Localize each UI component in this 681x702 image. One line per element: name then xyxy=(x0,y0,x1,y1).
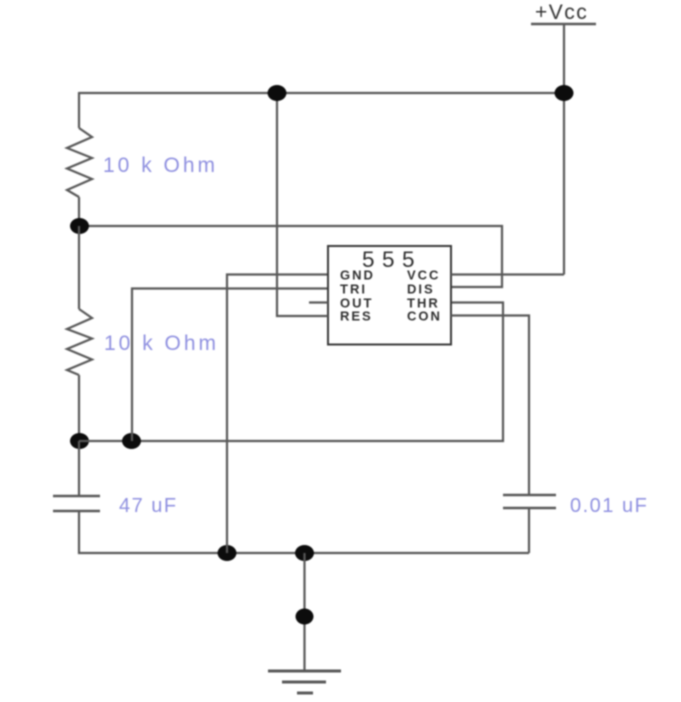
svg-text:CON: CON xyxy=(407,309,442,324)
svg-text:RES: RES xyxy=(340,309,373,324)
junction dot (304.5,553) xyxy=(295,545,314,561)
wire RES branch x=277 from top rail xyxy=(277,93,328,316)
svg-text:47 uF: 47 uF xyxy=(119,495,178,517)
junction dot (304.5,616.5) xyxy=(296,609,314,625)
wire top rail y=93 xyxy=(79,92,564,94)
wire node B horizontal y=441 to THR riser xyxy=(79,303,503,442)
resistor R1 xyxy=(67,128,92,197)
wire TRI branch x=132 xyxy=(132,289,328,442)
wire OUT stub xyxy=(309,301,328,303)
svg-text:GND: GND xyxy=(340,268,375,283)
capacitor C2 0.01 uF xyxy=(503,495,556,508)
ground xyxy=(268,671,341,693)
wire GND branch x=227 xyxy=(227,275,328,554)
svg-text:10 k Ohm: 10 k Ohm xyxy=(103,154,218,177)
svg-text:10 k Ohm: 10 k Ohm xyxy=(104,332,219,355)
junction dot (564,93) xyxy=(555,85,574,101)
junction dot (277,93) xyxy=(268,85,287,101)
power symbol +Vcc xyxy=(531,1,596,24)
svg-text:DIS: DIS xyxy=(407,282,435,297)
wire CON branch to C2 xyxy=(451,316,529,496)
svg-text:+Vcc: +Vcc xyxy=(535,1,588,24)
capacitor C1 47 uF xyxy=(53,496,100,511)
wire Vcc vertical x=564 from +Vcc down to VCC pin xyxy=(563,24,565,275)
svg-text:0.01 uF: 0.01 uF xyxy=(570,495,648,517)
node B junction dot (79,441) xyxy=(70,433,89,449)
resistor R2 xyxy=(67,309,92,375)
wire C1 bottom to ground rail xyxy=(79,511,529,553)
wire R1 bottom to node A xyxy=(78,197,80,226)
wire left vertical x=79 top rail to R1 xyxy=(78,92,80,128)
junction dot (227,553) xyxy=(218,545,237,561)
svg-text:TRI: TRI xyxy=(340,282,367,297)
junction dot TRI tap (132,441) xyxy=(122,433,141,449)
wire node A to R2 xyxy=(78,226,80,309)
wire node B down to C1 xyxy=(78,441,80,496)
wire VCC stub y=274.5 xyxy=(451,273,564,275)
node A junction dot (79,226) xyxy=(70,218,89,234)
wire R2 bottom to node B xyxy=(78,375,80,441)
svg-text:VCC: VCC xyxy=(407,268,440,283)
wire C2 bottom to ground rail xyxy=(528,508,530,553)
wire ground drop x=304.5 xyxy=(303,553,305,671)
wire node A horizontal y=226 to DIS riser xyxy=(79,226,502,287)
op-amp (IC) U1 555 body xyxy=(328,246,451,345)
